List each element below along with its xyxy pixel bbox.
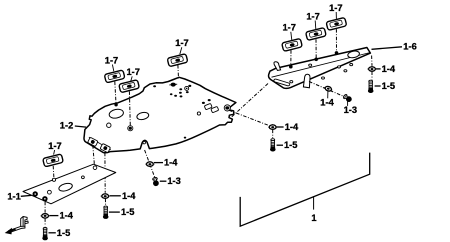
- front arrow: [5, 228, 12, 235]
- clip nut 1-7 T3: [326, 17, 347, 30]
- plate 1-6 fold line: [272, 53, 370, 78]
- label 1-1 leader: [21, 194, 32, 197]
- bolt 1-5 right pair: [368, 80, 374, 93]
- label dash 1-5 right pair: [375, 85, 381, 87]
- clip nut 1-7 T2: [306, 28, 327, 41]
- leader C1 clip to cover: [177, 65, 180, 78]
- leader flange bolt1 to plate 1-1: [93, 145, 95, 165]
- clip nut 1-7 C4: [43, 154, 64, 167]
- svg-text:1-7: 1-7: [306, 11, 319, 21]
- label dash 1-4 cover right: [277, 126, 284, 128]
- leader cover right to washer: [229, 110, 270, 126]
- leader washer to bolt right pair: [371, 72, 373, 80]
- leader plate 1-6 left end to cover right corner: [232, 84, 269, 118]
- svg-text:1-4: 1-4: [382, 64, 396, 74]
- svg-text:1-5: 1-5: [284, 140, 297, 150]
- leader plate 1-6 right corner down: [371, 56, 373, 66]
- svg-text:1-4: 1-4: [164, 158, 178, 168]
- cover bolt right end: [224, 105, 230, 111]
- cover clip rails right: [204, 103, 218, 112]
- cover oval hole right: [136, 111, 149, 120]
- plate 1-1 large hole: [58, 182, 73, 193]
- label dash 1-3 mid: [160, 180, 167, 182]
- svg-text:1-4: 1-4: [60, 211, 74, 221]
- svg-text:1-4: 1-4: [285, 122, 299, 132]
- cover oval hole left: [108, 108, 124, 119]
- svg-text:1-5: 1-5: [57, 228, 70, 238]
- svg-text:1-7: 1-7: [105, 55, 118, 65]
- clip nut 1-7 C2: [104, 70, 125, 83]
- label line 1-7 T3: [335, 12, 337, 19]
- plate 1-6 mid hook tab: [303, 74, 310, 88]
- leader T1 clip to plate: [290, 50, 292, 66]
- cover flange tab 1: [88, 137, 99, 146]
- svg-text:1-7: 1-7: [126, 67, 139, 77]
- bolt 1-5 bottom left: [42, 228, 48, 241]
- leader flange bolt2 to washer: [104, 153, 106, 193]
- bolt 1-5 below flange: [103, 206, 109, 219]
- cover flange tab 2: [100, 143, 111, 152]
- front bracket: [9, 217, 29, 233]
- washer 1-4 cover right: [268, 124, 277, 130]
- label line 1-7 C1: [180, 47, 182, 54]
- leader T2 clip to plate: [315, 39, 317, 58]
- svg-text:1-5: 1-5: [121, 207, 134, 217]
- svg-text:1-5: 1-5: [382, 81, 395, 91]
- cover flange fold line: [89, 137, 111, 150]
- svg-text:1-3: 1-3: [344, 105, 357, 115]
- leader washer to bolt below flange: [104, 199, 106, 206]
- svg-text:1-4: 1-4: [122, 191, 136, 201]
- leader washer to bolt cover right: [272, 130, 274, 138]
- cover small circle hole: [107, 123, 111, 127]
- label dash 1-4 right pair: [376, 68, 381, 70]
- cover 1-2 body: [84, 77, 236, 153]
- leader T3 clip to plate: [335, 29, 337, 52]
- label dash 1-4 bottom left: [49, 215, 58, 217]
- plate 1-1 grommet 2: [42, 196, 47, 201]
- plate 1-1 small holes: [48, 166, 97, 194]
- label 1-2 leader: [75, 126, 86, 127]
- leader C3 clip to cover: [128, 91, 131, 126]
- label dash 1-5 bottom left: [49, 232, 56, 234]
- label dash 1-5 below flange: [109, 211, 120, 213]
- label dash 1-4 below flange: [110, 195, 121, 197]
- label line 1-7 T2: [314, 21, 317, 30]
- cover ringed hole: [185, 86, 201, 115]
- svg-text:1-6: 1-6: [403, 41, 416, 51]
- leader C4 clip to plate: [52, 166, 55, 178]
- plate 1-1 body: [23, 164, 116, 204]
- plate 1-6 slot: [274, 79, 290, 86]
- clip nut 1-7 C1: [167, 54, 188, 67]
- label line 1-7 C3: [131, 76, 132, 81]
- plate 1-6 bolt dots at clip leader ends: [289, 51, 338, 68]
- clip nut 1-7 C3: [119, 80, 140, 93]
- label dash 1-5 cover right: [277, 144, 283, 146]
- svg-text:1-3: 1-3: [167, 176, 180, 186]
- svg-text:1-7: 1-7: [48, 141, 61, 151]
- clip nut 1-7 T1: [282, 38, 303, 51]
- svg-text:1-7: 1-7: [282, 23, 295, 33]
- label dash 1-4 mid: [154, 162, 163, 164]
- bolt 1-4 below plate 1-6: [324, 85, 333, 92]
- label line 1-3 top right: [347, 101, 349, 106]
- washer 1-4 mid: [145, 161, 154, 167]
- svg-text:1-1: 1-1: [7, 192, 20, 202]
- cover leader end dot C3: [128, 126, 133, 131]
- svg-text:1-7: 1-7: [175, 38, 188, 48]
- bolt 1-5 cover right: [270, 139, 276, 152]
- label 1 tick: [313, 196, 315, 209]
- plate 1-6 body: [269, 48, 371, 89]
- leader washer to bolt bottom left: [44, 218, 46, 226]
- leader cover tab to washer-screw: [145, 150, 155, 177]
- cover bottom tab hole: [143, 141, 146, 144]
- svg-text:1-2: 1-2: [60, 121, 73, 131]
- label 1-6 leader: [372, 47, 403, 50]
- svg-text:1-7: 1-7: [329, 3, 342, 13]
- leader plate 1-1 to washer bottom left: [44, 202, 46, 213]
- washer 1-4 below flange: [101, 193, 110, 199]
- plate 1-1 grommet 1: [33, 191, 38, 196]
- washer 1-4 bottom left: [41, 213, 50, 219]
- cover hole cluster: [153, 85, 210, 139]
- label line 1-7 C4: [54, 150, 55, 155]
- svg-text:1: 1: [311, 213, 316, 223]
- label line 1-7 C2: [112, 65, 113, 72]
- screw 1-3 top right: [342, 93, 352, 103]
- screw 1-3 mid: [152, 177, 159, 187]
- label line 1-4 below plate 1-6: [327, 92, 329, 99]
- cover leader end dot C2: [114, 103, 117, 106]
- plate 1-6 large hole: [347, 50, 360, 59]
- plate 1-6 small holes: [290, 64, 353, 83]
- label line 1-7 T1: [291, 32, 292, 40]
- leader plate 1-6 to bolt 1-4 and screw 1-3: [309, 82, 344, 97]
- svg-text:1-4: 1-4: [320, 98, 334, 108]
- cover bolt at top vertex: [169, 83, 177, 87]
- plate 1-6 left hook tab: [274, 62, 281, 71]
- washer 1-4 right pair: [367, 66, 376, 72]
- leader C2 clip to cover: [115, 82, 116, 104]
- panel 1 outline: [240, 153, 370, 227]
